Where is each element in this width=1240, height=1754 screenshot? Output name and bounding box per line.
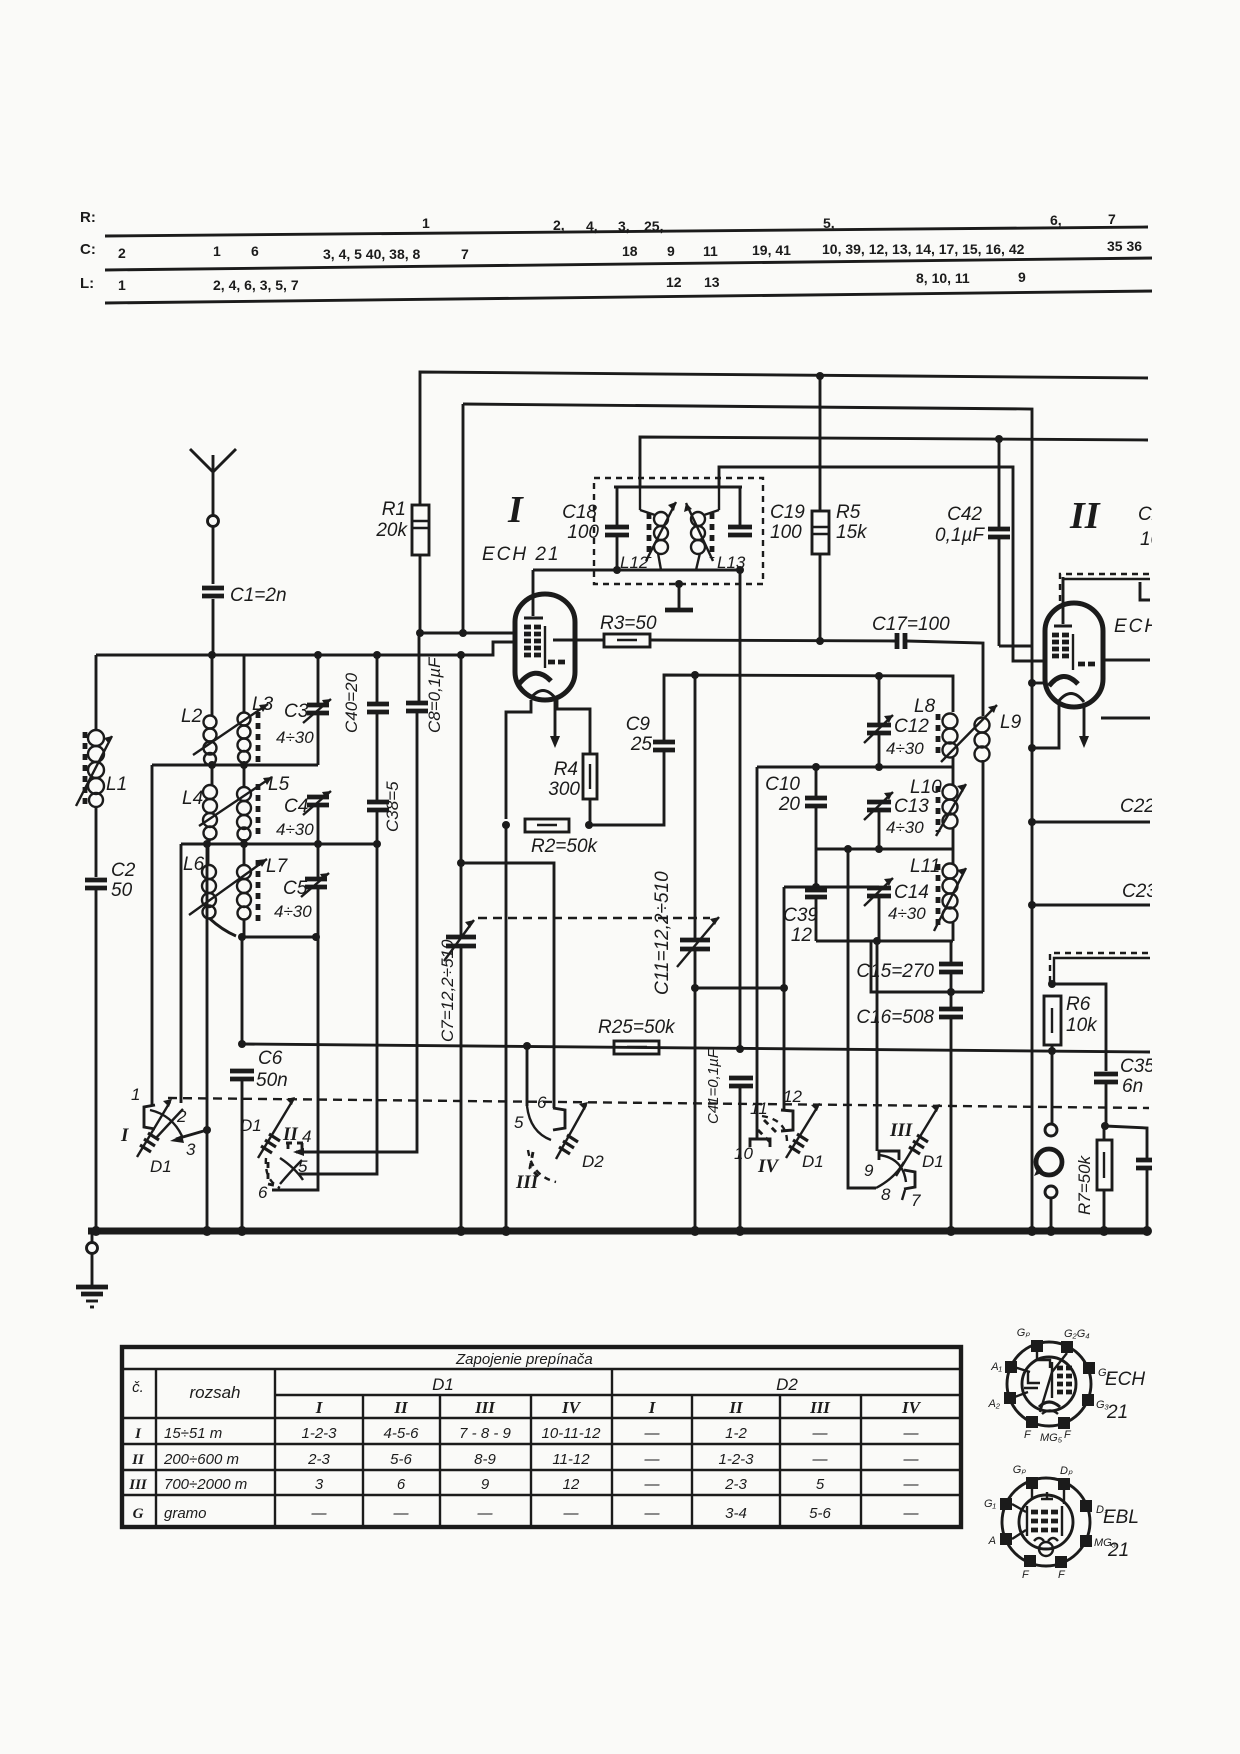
wire oscillator cathode y570 (533, 569, 740, 572)
ground osc box (665, 580, 693, 610)
svg-text:9: 9 (481, 1476, 490, 1493)
svg-text:10k: 10k (1066, 1015, 1098, 1036)
svg-text:10, 39, 12, 13, 14, 17, 15, 16: 10, 39, 12, 13, 14, 17, 15, 16, 42 (822, 241, 1025, 257)
table row II (131, 1451, 919, 1468)
node rail dots (314, 651, 322, 659)
svg-text:C2: C2 (111, 860, 136, 881)
capacitor C41 (705, 1048, 753, 1124)
wire ctc8 feeder col847 (848, 849, 876, 1188)
svg-text:ECH: ECH (1105, 1369, 1145, 1390)
tube ECH21 I envelope (515, 594, 575, 700)
wire C39 tap y887 (784, 886, 879, 889)
tube I top lead (532, 570, 535, 616)
capacitor C6 (230, 1048, 288, 1091)
svg-text:9: 9 (667, 243, 675, 259)
svg-text:G: G (133, 1506, 144, 1522)
node switch I wiper tap (203, 1126, 211, 1134)
wire jack to bus (1050, 1198, 1053, 1231)
resistor R5 (812, 376, 868, 641)
inductor L7 (237, 844, 289, 937)
node R6 top (1048, 980, 1056, 988)
svg-text:8, 10, 11: 8, 10, 11 (916, 270, 970, 286)
capacitor C3 trimmer (276, 655, 331, 765)
svg-text:25: 25 (630, 734, 653, 755)
node C41 top (736, 1045, 744, 1053)
svg-text:6: 6 (397, 1476, 406, 1493)
capacitor C35 (1094, 1056, 1155, 1097)
svg-text:C7=12,2÷510: C7=12,2÷510 (438, 939, 457, 1042)
svg-text:100: 100 (567, 522, 599, 543)
svg-text:7 - 8 - 9: 7 - 8 - 9 (459, 1425, 511, 1442)
tube II cathode hook (1028, 744, 1036, 752)
svg-text:6: 6 (537, 1093, 547, 1112)
svg-text:35 36: 35 36 (1107, 238, 1142, 254)
switch D1 section III (864, 1104, 944, 1210)
svg-text:4÷30: 4÷30 (276, 820, 314, 839)
svg-text:C11=12,2÷510: C11=12,2÷510 (652, 871, 673, 995)
parts-list header row C (80, 238, 1142, 262)
ground symbol (76, 1287, 108, 1307)
inductor L6 (183, 844, 236, 936)
svg-text:D2: D2 (582, 1152, 604, 1171)
wire tap to switch III ctc6 (461, 863, 554, 1108)
svg-text:R7=50k: R7=50k (1075, 1154, 1094, 1215)
svg-text:3: 3 (315, 1476, 324, 1493)
band switch dashed line (168, 1098, 1149, 1108)
svg-text:I: I (315, 1398, 324, 1417)
svg-text:5: 5 (816, 1476, 825, 1493)
wire ctc5 feeder (526, 1046, 529, 1102)
tube socket ECH21 (987, 1327, 1111, 1444)
inductor L13 (684, 487, 746, 572)
svg-text:IV: IV (757, 1156, 779, 1177)
wire antenna lead (212, 527, 215, 584)
svg-text:I: I (120, 1125, 129, 1146)
svg-text:Zapojenie prepínača: Zapojenie prepínača (455, 1351, 593, 1368)
tuning arrow L6/L7 (189, 859, 267, 915)
svg-text:18: 18 (622, 243, 638, 259)
svg-text:6n: 6n (1122, 1076, 1143, 1097)
svg-text:gramo: gramo (164, 1505, 207, 1522)
svg-text:L:: L: (80, 275, 94, 292)
svg-text:—: — (477, 1505, 494, 1522)
svg-text:4÷30: 4÷30 (276, 728, 314, 747)
ground bus (88, 1228, 1149, 1235)
svg-text:G₁: G₁ (984, 1498, 997, 1510)
svg-text:1: 1 (118, 277, 126, 293)
variable capacitor C7 (438, 920, 476, 1042)
wire tap y988 (695, 987, 784, 990)
svg-text:C41=0,1µF: C41=0,1µF (705, 1048, 722, 1124)
svg-text:21: 21 (1106, 1402, 1128, 1423)
capacitor C12 trimmer (864, 676, 929, 767)
bus junction nodes (91, 1226, 1152, 1236)
node C39 tap (812, 883, 820, 891)
svg-text:Gₚ: Gₚ (1017, 1327, 1031, 1339)
svg-text:—: — (311, 1505, 328, 1522)
node R5 bottom (816, 637, 824, 645)
capacitor C2 (85, 860, 136, 901)
svg-text:20: 20 (778, 794, 801, 815)
wire col784 upper (783, 887, 786, 988)
svg-text:12: 12 (783, 1087, 802, 1106)
node rail941 (873, 937, 881, 945)
svg-text:R1: R1 (382, 499, 406, 520)
svg-text:1: 1 (213, 243, 221, 259)
svg-text:7: 7 (461, 246, 469, 262)
svg-text:L11: L11 (910, 856, 940, 877)
svg-text:300: 300 (548, 779, 580, 800)
tuning arrow L8/L9 (941, 705, 997, 762)
svg-text:II: II (131, 1452, 145, 1468)
wire C41 to bus (739, 1088, 742, 1231)
svg-text:—: — (644, 1476, 661, 1493)
parts-list header row R (80, 209, 1116, 234)
svg-text:2: 2 (118, 245, 126, 261)
capacitor C5 trimmer (274, 873, 329, 937)
wire R4 bottom (589, 799, 592, 825)
capacitor C36 (1105, 1126, 1158, 1231)
svg-text:L8: L8 (914, 696, 936, 717)
wire C8 column down to switch II (296, 633, 419, 1152)
wire L1 branch down (95, 655, 98, 731)
wire col784 to switch IV ctc12 (783, 988, 786, 1110)
svg-text:D1: D1 (922, 1152, 944, 1171)
tube II triode grid dashes (1078, 662, 1095, 667)
svg-text:—: — (393, 1505, 410, 1522)
svg-text:C6: C6 (258, 1048, 283, 1069)
wire AVC line R25 (242, 1044, 1150, 1052)
svg-text:F: F (1024, 1429, 1032, 1441)
svg-text:III: III (515, 1172, 539, 1193)
svg-text:10: 10 (734, 1144, 753, 1163)
capacitor C10 (765, 767, 827, 887)
wire L8/L10 rail y767 (757, 766, 953, 769)
svg-text:II: II (393, 1398, 409, 1417)
svg-text:R:: R: (80, 209, 96, 226)
svg-text:4÷30: 4÷30 (888, 904, 926, 923)
gramophone jack top (1045, 1124, 1057, 1136)
svg-text:F: F (1064, 1429, 1072, 1441)
node C42 top (995, 435, 1003, 443)
node C11 tap (691, 984, 699, 992)
tube I inner dome (530, 691, 556, 700)
wire C5-column to switch II ctc6 (272, 937, 318, 1190)
capacitor C18 (562, 487, 629, 570)
svg-text:C19: C19 (770, 502, 805, 523)
capacitor C9 (626, 714, 675, 755)
svg-text:A₁: A₁ (990, 1361, 1002, 1373)
resistor R4 (548, 754, 597, 800)
svg-text:1-2-3: 1-2-3 (718, 1451, 754, 1468)
svg-text:C23: C23 (1122, 881, 1157, 902)
chassis terminal (87, 1234, 98, 1285)
svg-text:6,: 6, (1050, 212, 1062, 228)
tube I grid dashes (524, 627, 541, 655)
svg-text:2, 4, 6, 3, 5, 7: 2, 4, 6, 3, 5, 7 (213, 277, 299, 293)
svg-text:C14: C14 (894, 882, 929, 903)
svg-text:—: — (812, 1451, 829, 1468)
gramophone jack bottom (1045, 1186, 1057, 1198)
svg-text:7: 7 (1108, 211, 1116, 227)
svg-text:F: F (1022, 1569, 1030, 1581)
tube II top lead (1062, 577, 1065, 624)
svg-text:C35: C35 (1120, 1056, 1155, 1077)
svg-text:13: 13 (704, 274, 720, 290)
wire C17 to L9 (907, 641, 983, 716)
svg-text:Gₚ: Gₚ (1013, 1464, 1027, 1476)
wire L2 bottom (211, 763, 214, 765)
resistor R3 (600, 613, 657, 647)
scan edge mask (1152, 0, 1240, 1754)
svg-text:IV: IV (901, 1398, 922, 1417)
wire switch-I wiper column (206, 844, 209, 1231)
tube I triode anode arm (557, 700, 590, 754)
svg-text:C18: C18 (562, 502, 597, 523)
capacitor C13 trimmer (864, 792, 929, 849)
svg-text:č.: č. (132, 1379, 144, 1396)
inductor L10 (910, 767, 966, 849)
node W1 R5 (816, 372, 824, 380)
svg-text:F: F (1058, 1569, 1066, 1581)
svg-text:12: 12 (791, 925, 813, 946)
node rail767 (812, 763, 820, 771)
node W2 grid (459, 629, 467, 637)
svg-text:II: II (1069, 495, 1101, 537)
svg-text:9: 9 (864, 1161, 874, 1180)
wire C7 column (460, 655, 463, 935)
wire R6 top to C35 (1052, 984, 1106, 1071)
svg-text:4÷30: 4÷30 (886, 739, 924, 758)
switch D1 section I (120, 1085, 207, 1176)
inductor L12 (620, 487, 676, 572)
tube II anode arms right (1101, 660, 1150, 718)
wire C7 to bus (460, 948, 463, 1231)
rule under L row (105, 291, 1155, 303)
capacitor C14 trimmer (864, 878, 929, 941)
node osc rail (691, 671, 699, 679)
svg-text:12: 12 (563, 1476, 580, 1493)
svg-text:6: 6 (258, 1183, 268, 1202)
svg-text:7: 7 (911, 1191, 921, 1210)
svg-text:L2: L2 (181, 706, 203, 727)
capacitor C16 (856, 1007, 963, 1231)
wire cathode hook tube I (506, 700, 531, 819)
switch table frame (121, 1346, 962, 1528)
svg-text:II: II (728, 1398, 744, 1417)
svg-text:4÷30: 4÷30 (886, 818, 924, 837)
svg-text:I: I (648, 1398, 657, 1417)
svg-text:ECH 21: ECH 21 (482, 544, 561, 565)
wire C42 column (999, 439, 1032, 646)
node row1 rail (208, 761, 216, 769)
svg-text:—: — (644, 1505, 661, 1522)
svg-text:II: II (282, 1124, 298, 1145)
wire rail y941 (816, 940, 953, 943)
wire C35 to R7 (1105, 1084, 1108, 1125)
wire row1 bottom rail y765 (152, 764, 318, 767)
tube II grid dashes (1052, 635, 1069, 656)
inductor L5 (237, 765, 290, 841)
wire W2 vertical (462, 404, 465, 633)
tube socket EBL21 (984, 1464, 1117, 1581)
svg-text:Dₚ: Dₚ (1060, 1465, 1073, 1477)
wire C6 column (241, 937, 244, 1042)
svg-text:50n: 50n (256, 1070, 288, 1091)
svg-text:4-5-6: 4-5-6 (383, 1425, 419, 1442)
svg-text:11-12: 11-12 (552, 1451, 590, 1468)
capacitor C19 (728, 487, 805, 543)
inductor L11 (910, 849, 966, 941)
wire C11 column top (694, 675, 697, 938)
gramophone pickup (1034, 1149, 1062, 1176)
svg-text:D1: D1 (240, 1116, 262, 1135)
wire gang dashed C7-C11 (478, 917, 710, 919)
svg-text:C12: C12 (894, 716, 929, 737)
svg-text:8-9: 8-9 (474, 1451, 496, 1468)
svg-text:III: III (474, 1398, 496, 1417)
svg-text:0,1µF: 0,1µF (935, 525, 985, 546)
svg-text:rozsah: rozsah (189, 1383, 240, 1402)
inductor L8 (914, 696, 958, 767)
tube I cathode arrow down (550, 700, 560, 748)
svg-text:A₂: A₂ (987, 1398, 1000, 1410)
rule under C row (105, 258, 1155, 270)
svg-text:100: 100 (770, 522, 802, 543)
rule under R row (105, 227, 1148, 236)
node C18 stem (613, 566, 621, 574)
svg-text:IV: IV (561, 1398, 582, 1417)
tube II cathode arc (1049, 676, 1078, 686)
svg-text:R2=50k: R2=50k (531, 836, 599, 857)
node R7 top (1101, 1122, 1109, 1130)
svg-text:200÷600 m: 200÷600 m (163, 1451, 239, 1468)
wire osc box top rail (614, 486, 742, 489)
svg-text:5-6: 5-6 (809, 1505, 831, 1522)
wire column C19-C41 down (739, 570, 742, 1049)
svg-text:A: A (988, 1535, 996, 1547)
svg-text:R25=50k: R25=50k (598, 1017, 676, 1038)
svg-text:G₂G₄: G₂G₄ (1064, 1328, 1090, 1340)
table headers (132, 1375, 921, 1417)
wire rail y849 (816, 848, 953, 851)
wire R2R4 node to C9 (589, 752, 664, 825)
node C7 tap (457, 859, 465, 867)
svg-text:5: 5 (514, 1113, 524, 1132)
capacitor C4 trimmer (276, 791, 331, 839)
tuning arrow L4/L5 (199, 777, 272, 826)
wire W2 top distribution (463, 404, 1032, 1231)
tube II cathode arrow (1079, 707, 1089, 748)
node C6 top / AVC line start (238, 1040, 246, 1048)
wire C1 to rail (212, 599, 215, 656)
capacitor C42 (935, 504, 1010, 546)
svg-text:C15=270: C15=270 (856, 961, 934, 982)
svg-text:D1: D1 (150, 1157, 172, 1176)
capacitor C8 (406, 656, 444, 733)
svg-text:6: 6 (251, 243, 259, 259)
switch D1 section II (240, 1097, 311, 1202)
svg-text:C5: C5 (283, 878, 308, 899)
wire R3 to R5 node and C17 (650, 640, 895, 641)
wire R2 column to bus (505, 825, 508, 1231)
wire R1 to grid wire (419, 555, 422, 633)
node tap right (780, 984, 788, 992)
svg-text:C13: C13 (894, 796, 929, 817)
svg-text:2-3: 2-3 (307, 1451, 330, 1468)
svg-text:R5: R5 (836, 502, 861, 523)
tube ECH21 II envelope (1045, 603, 1103, 707)
inductor L1 (76, 730, 127, 807)
svg-text:—: — (903, 1425, 920, 1442)
oscillator dashed box (594, 478, 763, 584)
svg-text:L1: L1 (106, 774, 127, 795)
svg-text:C1=2n: C1=2n (230, 585, 287, 606)
wire row3 bottom rail y937 (240, 936, 318, 939)
wire switch-I feeder ctc1 (151, 765, 154, 1105)
svg-text:C22: C22 (1120, 796, 1155, 817)
wire C9 top to osc rail (664, 675, 953, 740)
table row G (133, 1505, 920, 1522)
node R2 left (502, 821, 510, 829)
wire W1 top distribution (420, 372, 1148, 505)
antenna terminal (208, 516, 219, 527)
wire C23 (1028, 901, 1036, 909)
svg-text:I: I (507, 489, 524, 531)
tube I triode grid dashes (548, 660, 565, 665)
svg-text:R4: R4 (554, 759, 578, 780)
svg-text:4÷30: 4÷30 (274, 902, 312, 921)
tube I top electrode (524, 617, 543, 620)
svg-text:EBL: EBL (1103, 1507, 1139, 1528)
svg-text:1: 1 (422, 215, 430, 231)
svg-text:I: I (134, 1426, 142, 1442)
capacitor C39 (783, 890, 827, 946)
svg-text:C39: C39 (783, 905, 818, 926)
resistor R25 (598, 1017, 676, 1054)
svg-text:C38=5: C38=5 (383, 781, 402, 832)
node C19 column (736, 566, 744, 574)
node row2 rail (203, 840, 211, 848)
svg-text:12: 12 (666, 274, 682, 290)
tube II anode line (1072, 634, 1074, 670)
svg-text:3-4: 3-4 (725, 1505, 747, 1522)
wire C11 bottom (694, 951, 697, 1231)
wire W4 oscillator top2 (719, 467, 1046, 661)
svg-text:C9: C9 (626, 714, 651, 735)
switch D1 section IV (734, 1087, 824, 1177)
svg-text:—: — (644, 1425, 661, 1442)
wire W3 oscillator top (640, 437, 1148, 487)
svg-text:—: — (563, 1505, 580, 1522)
wire AVC rail y655 (96, 642, 515, 655)
svg-text:L7: L7 (266, 856, 289, 877)
node row3 rail (238, 933, 246, 941)
wire L2 column top (211, 655, 214, 716)
svg-text:III: III (889, 1120, 913, 1141)
svg-text:C17=100: C17=100 (872, 614, 950, 635)
node R4 R2 junction (585, 821, 593, 829)
svg-text:C40=20: C40=20 (342, 672, 361, 733)
svg-text:10-11-12: 10-11-12 (542, 1425, 602, 1442)
table row I (134, 1425, 919, 1442)
svg-text:3: 3 (186, 1140, 196, 1159)
svg-text:21: 21 (1107, 1540, 1129, 1561)
resistor R1 (375, 499, 429, 555)
svg-text:2-3: 2-3 (724, 1476, 747, 1493)
node R1 grid (416, 629, 424, 637)
svg-text:4: 4 (302, 1127, 311, 1146)
